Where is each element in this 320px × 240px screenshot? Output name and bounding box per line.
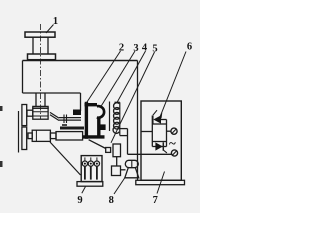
cam right tab [100, 124, 105, 130]
svg-text:8: 8 [109, 195, 114, 206]
lower actuator rod [50, 133, 56, 139]
terminal circle 2 [171, 150, 177, 156]
big housing box left edge [22, 61, 24, 94]
solenoid side square [106, 148, 111, 153]
shaft below housing [36, 93, 45, 106]
wire solenoid to box 8 [116, 157, 118, 166]
linkage pin ticks [64, 115, 67, 124]
rack tick [62, 124, 67, 126]
sleeve collar [28, 54, 56, 60]
upper actuator stub [27, 110, 33, 116]
left mounting flange lower [22, 127, 27, 150]
sleeve cylinder sides [33, 37, 48, 54]
big housing box right edge [137, 61, 139, 181]
thyristor V1 triangle [153, 115, 161, 123]
leader line 7 [157, 172, 165, 194]
upper actuator inner lines [33, 112, 48, 116]
svg-text:3: 3 [133, 43, 138, 54]
wire box 8 to motor [121, 169, 126, 171]
leader line 8 [114, 178, 125, 195]
controller box 7 [141, 101, 181, 180]
svg-text:5: 5 [152, 44, 157, 55]
thyristor V2 triangle [155, 142, 162, 150]
terminal 2 slash [172, 151, 177, 156]
cam plate right bar [97, 117, 100, 137]
servo motor pedestal [125, 168, 139, 178]
terminal 1 slash [172, 129, 177, 134]
leader line 3 [100, 51, 135, 108]
vertical dash-dot centerline [40, 24, 42, 119]
lower actuator cylinder [32, 130, 50, 141]
thyristor loop right side [166, 120, 168, 147]
thyristor bottom branch wire [152, 141, 166, 143]
thyristor loop left side [151, 116, 153, 147]
cam roller bulge [97, 106, 104, 118]
plunger top tick a [84, 157, 86, 161]
brace link [50, 142, 81, 175]
fuel pump box 9 [81, 156, 102, 182]
leader line 6 [159, 52, 186, 119]
plunger top tick c [96, 157, 98, 161]
lower actuator piston line [35, 130, 37, 141]
spring bottom bar [120, 135, 128, 137]
wire loop to terminal 1 [167, 130, 172, 132]
rack bar [60, 127, 84, 130]
servo motor capsule [125, 160, 138, 167]
edge speck lower [0, 161, 3, 167]
thyristor V1 bar [152, 116, 154, 124]
thyristor V2 gate [163, 150, 167, 153]
plunger circle b [88, 161, 93, 166]
riser wire down [127, 129, 129, 155]
thyristor V1 gate [153, 110, 157, 115]
leader line 9 [82, 187, 86, 194]
thyristor V2 bar [162, 142, 164, 150]
housing step edge [80, 93, 82, 111]
plunger stem c [96, 166, 98, 179]
rack slider [56, 132, 83, 140]
plunger circle a [82, 161, 87, 166]
cam plate (black, parts 2/3) top bar [85, 103, 98, 106]
svg-text:6: 6 [187, 42, 192, 53]
lower actuator stub [28, 133, 32, 139]
link cam to pilot valve [89, 140, 106, 149]
big housing box top edge [23, 60, 138, 62]
svg-text:1: 1 [53, 16, 58, 27]
terminal circle 1 [171, 128, 177, 134]
leader 6 arrowhead [158, 113, 162, 120]
plunger circle c [94, 161, 99, 166]
svg-text:~: ~ [169, 136, 176, 151]
wire to lower terminal [128, 153, 172, 155]
spring right rail [119, 102, 121, 135]
plunger top tick b [90, 157, 92, 161]
thyristor top branch wire [161, 119, 167, 121]
leader line 5 [111, 52, 155, 143]
flange back line [18, 111, 20, 153]
spring top bar [115, 101, 120, 103]
svg-text:7: 7 [153, 195, 158, 206]
cam plate bottom bar [83, 135, 105, 138]
big housing box bottom edge [23, 92, 81, 94]
governor sleeve cap (part 1) [25, 32, 55, 37]
leader line 2 [86, 51, 121, 104]
leader line 4 [117, 51, 146, 103]
amplifier box 8 [112, 166, 121, 176]
cam plate left bar [85, 102, 88, 139]
linkage arm diagonal [50, 112, 59, 118]
linkage arm horizontal [59, 117, 81, 119]
plunger stem b [90, 166, 92, 179]
base plate [136, 180, 185, 184]
pump base plate 9 [77, 182, 103, 187]
spring coils [113, 103, 119, 134]
leader line 1 [46, 25, 54, 34]
svg-text:9: 9 [77, 195, 82, 206]
upper actuator block [33, 108, 48, 119]
spring left rail [109, 102, 111, 132]
wire spring to riser [118, 128, 128, 130]
upper actuator cap bar [33, 106, 48, 108]
edge speck upper [0, 106, 3, 111]
left mounting flange upper [22, 105, 27, 126]
servo motor centerline [131, 160, 133, 167]
svg-text:4: 4 [142, 43, 148, 54]
pivot block [73, 110, 81, 116]
plunger stem a [84, 166, 86, 179]
wire into loop [141, 131, 153, 133]
solenoid body [113, 144, 121, 157]
svg-text:2: 2 [119, 43, 124, 54]
